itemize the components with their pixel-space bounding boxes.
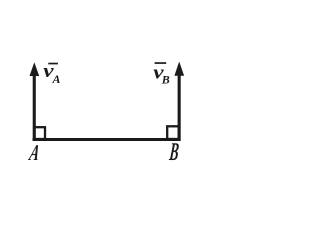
vector arrow vA head	[30, 62, 40, 76]
vector arrow vB shaft	[178, 70, 181, 141]
right-angle mark at B	[167, 126, 179, 139]
right-angle mark at A	[34, 127, 45, 139]
svg-text:B: B	[161, 73, 170, 87]
svg-text:A: A	[52, 72, 61, 86]
vector arrow vA shaft	[33, 70, 36, 141]
wire: horizontal segment A-B	[33, 138, 181, 141]
label vB overbar	[155, 62, 167, 64]
label vA overbar	[48, 63, 58, 65]
vector arrow vB head	[174, 62, 184, 76]
